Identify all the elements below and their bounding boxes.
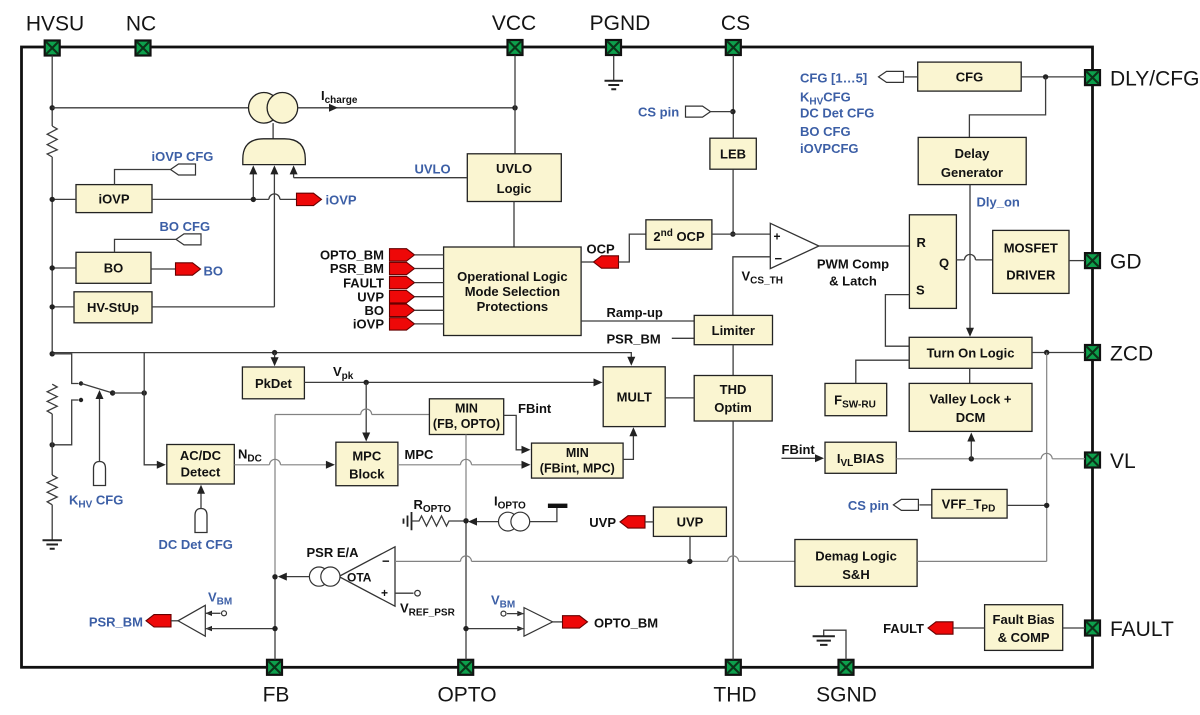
node VCC/Icharge junction <box>512 105 517 110</box>
flag CFG (white, pointing left) <box>879 71 904 82</box>
block IVL BIAS <box>825 442 896 473</box>
block BO <box>76 252 151 283</box>
svg-text:Operational Logic: Operational Logic <box>457 269 568 284</box>
svg-text:−: − <box>382 554 390 569</box>
node CS sense tap <box>730 109 735 114</box>
current source Icharge circle B <box>267 93 298 124</box>
flag BO input (red) <box>390 304 415 316</box>
wire OTA minus input / Demag line (with hops over OPTO and THD risers) <box>395 556 795 562</box>
wire MULT to THD Optim <box>665 397 694 399</box>
wire FAULT flag to block <box>415 282 444 284</box>
block HV-StUp <box>74 292 152 323</box>
pin SGND <box>839 660 854 675</box>
op-amp PWM comparator <box>770 223 819 268</box>
wire current sources to OR dome <box>272 123 274 139</box>
svg-text:PkDet: PkDet <box>255 376 293 391</box>
node iOVP/dome junction <box>251 197 256 202</box>
flag OCP (red) <box>594 256 619 268</box>
wire Ramp-up output to Limiter <box>581 320 694 322</box>
wire BO CFG to BO block <box>115 239 177 252</box>
node OPTO/buffer junction <box>463 626 468 631</box>
svg-text:Q: Q <box>939 256 949 271</box>
wire rail to PkDet <box>274 353 276 360</box>
supply bar IOPTO <box>548 504 568 508</box>
svg-text:S&H: S&H <box>842 567 869 582</box>
wire main rail to MULT top (long horizontal) <box>52 353 631 360</box>
svg-text:CS pin: CS pin <box>638 105 679 120</box>
svg-text:PSR_BM: PSR_BM <box>330 261 384 276</box>
svg-text:& Latch: & Latch <box>829 274 877 289</box>
wire iOVP CFG to iOVP block <box>115 170 171 185</box>
wire MPC to MIN(FBint,MPC) with hop over OPTO riser <box>398 459 524 464</box>
svg-text:VBM: VBM <box>208 590 232 608</box>
node HVSU/Icharge junction <box>50 105 55 110</box>
resistor divider lower <box>47 475 57 505</box>
svg-text:Logic: Logic <box>497 181 532 196</box>
wire Turn On Logic to Valley Lock <box>969 368 971 383</box>
wire buffer to OPTO_BM flag <box>553 621 563 623</box>
resistor ROPTO <box>412 516 467 526</box>
svg-text:iOVP: iOVP <box>353 317 384 332</box>
arrowhead into MULT top <box>627 357 635 366</box>
svg-text:VREF_PSR: VREF_PSR <box>400 601 456 619</box>
svg-text:THD: THD <box>720 382 747 397</box>
wire DC Det CFG arrow to AC/DC Detect <box>200 491 202 509</box>
svg-text:& COMP: & COMP <box>998 630 1050 645</box>
svg-text:VCS_TH: VCS_TH <box>742 269 783 287</box>
block CFG <box>918 62 1022 91</box>
block Limiter <box>694 315 772 344</box>
wire CFG branch to Delay Generator <box>969 77 1045 137</box>
svg-text:HV-StUp: HV-StUp <box>87 300 139 315</box>
svg-text:iOVP CFG: iOVP CFG <box>152 149 214 164</box>
svg-text:Optim: Optim <box>714 400 752 415</box>
node OPTO/ROPTO junction <box>463 518 468 523</box>
svg-text:VL: VL <box>1110 450 1136 473</box>
op-amp OTA (PSR E/A) <box>339 547 395 606</box>
wire THD Optim to THD pin <box>732 421 734 660</box>
flag UVP input (red) <box>390 291 415 303</box>
pin VL <box>1085 453 1100 468</box>
arrowhead PSR buffer top input <box>205 611 212 616</box>
pin OPTO <box>458 660 473 675</box>
block FSW-RU <box>825 383 887 415</box>
wire PSR_BM to Limiter <box>672 337 694 339</box>
block Delay Generator <box>918 137 1026 184</box>
block LEB <box>710 138 756 169</box>
svg-text:PWM Comp: PWM Comp <box>817 257 889 272</box>
svg-text:FAULT: FAULT <box>1110 618 1174 641</box>
wire OTA plus input stub <box>395 592 414 594</box>
arrowhead OPTO buffer bottom input <box>517 626 524 631</box>
terminal VBM (right buffer) <box>501 611 506 616</box>
current source IOPTO circle A <box>499 512 518 531</box>
svg-text:FAULT: FAULT <box>883 621 924 636</box>
svg-text:Valley Lock +: Valley Lock + <box>929 392 1011 407</box>
flag iOVP output (red) <box>297 193 322 205</box>
node HVSU/iOVP <box>50 197 55 202</box>
svg-text:NC: NC <box>126 13 156 36</box>
wire FB riser upper (gray) <box>274 415 276 577</box>
flag BO output (red) <box>176 263 201 275</box>
svg-text:Fault Bias: Fault Bias <box>993 612 1055 627</box>
svg-text:Turn On Logic: Turn On Logic <box>927 346 1015 361</box>
flag PSR_BM input (red) <box>390 262 415 274</box>
svg-text:Ramp-up: Ramp-up <box>607 305 663 320</box>
flag FAULT input (red) <box>390 276 415 288</box>
divider: switch feed B <box>52 400 78 445</box>
wire dome input 2 (from HV-StUp) <box>273 172 275 307</box>
svg-text:CFG [1…5]: CFG [1…5] <box>800 71 867 86</box>
block MIN (FB, OPTO) <box>429 399 503 435</box>
node AC/DC branch <box>142 390 147 395</box>
svg-text:BO CFG: BO CFG <box>160 219 211 234</box>
flag OPTO_BM output (red) <box>563 616 588 628</box>
node FB/PSR buffer junction <box>272 626 277 631</box>
svg-text:R: R <box>917 235 927 250</box>
wire Fault Bias to FAULT pin <box>1063 627 1085 629</box>
wire IOPTO to OPTO node <box>474 521 499 523</box>
wire Vpk down to MPC Block <box>365 382 367 434</box>
svg-text:THD: THD <box>713 684 756 707</box>
wire IOPTO to supply <box>530 508 557 522</box>
svg-text:KHV CFG: KHV CFG <box>69 493 123 511</box>
resistor R-HVSU (startup resistor) <box>47 126 57 157</box>
svg-text:+: + <box>381 586 388 600</box>
svg-text:iOVP: iOVP <box>98 192 129 207</box>
svg-text:FB: FB <box>263 684 290 707</box>
pin HVSU <box>45 41 60 56</box>
svg-text:IOPTO: IOPTO <box>494 494 526 512</box>
current source IOPTO circle B <box>511 512 530 531</box>
wire divider to ground <box>51 505 53 540</box>
svg-text:FBint: FBint <box>782 442 816 457</box>
wire HVSU to BO <box>52 267 76 269</box>
wire 2nd OCP output to comparator <box>712 233 770 235</box>
svg-text:UVP: UVP <box>589 515 616 530</box>
wire CFG output to DLY/CFG pin <box>1021 76 1085 78</box>
arrowhead Vpk into MULT <box>594 378 603 386</box>
svg-text:BO: BO <box>204 264 224 279</box>
svg-text:Dly_on: Dly_on <box>977 195 1020 210</box>
wire NDC to MPC Block with hop over FB riser <box>234 459 328 464</box>
wire FBint into IVL BIAS <box>782 457 817 459</box>
block MULT <box>603 367 665 427</box>
svg-text:Limiter: Limiter <box>712 323 755 338</box>
arrowhead PSR buffer bottom input <box>205 626 212 631</box>
svg-text:SGND: SGND <box>816 684 877 707</box>
svg-text:CS pin: CS pin <box>848 498 889 513</box>
pin CS <box>726 40 741 55</box>
block Demag Logic S&H <box>795 540 917 587</box>
svg-text:LEB: LEB <box>720 147 746 162</box>
svg-text:Protections: Protections <box>477 299 549 314</box>
wire FB to MIN(FB,OPTO) with hop over Vpk branch <box>275 409 429 414</box>
pin FAULT <box>1085 621 1100 636</box>
svg-text:UVP: UVP <box>677 515 704 530</box>
svg-text:Block: Block <box>349 467 385 482</box>
wire dome input 3 (from UVLO) <box>293 172 295 178</box>
wire comparator minus input to Limiter <box>733 257 770 316</box>
resistor divider upper <box>47 384 57 414</box>
pin VCC <box>508 40 523 55</box>
terminal VBM (left buffer) <box>222 611 227 616</box>
triangle buffer OPTO_BM <box>524 608 553 637</box>
wire divider mid segment <box>51 414 53 475</box>
svg-text:HVSU: HVSU <box>26 13 84 36</box>
node HVSU/BO <box>50 265 55 270</box>
wire VL branch up to Valley Lock <box>970 439 972 459</box>
svg-text:iOVPCFG: iOVPCFG <box>800 141 859 156</box>
block PkDet <box>242 367 304 399</box>
svg-text:FBint: FBint <box>518 401 552 416</box>
wire iOVP flag to block <box>415 323 444 325</box>
IC outer boundary <box>22 47 1093 667</box>
node CFG/delay branch <box>1043 74 1048 79</box>
wire S input from Turn On Logic <box>885 295 909 347</box>
arrowhead into AC/DC Detect <box>157 461 166 469</box>
arrowhead OPTO buffer top input <box>517 611 524 616</box>
pin GD <box>1085 253 1100 268</box>
svg-text:BO CFG: BO CFG <box>800 124 851 139</box>
svg-text:iOVP: iOVP <box>326 193 357 208</box>
svg-text:PSR E/A: PSR E/A <box>307 545 360 560</box>
wire MOSFET DRIVER to GD pin <box>1069 260 1085 262</box>
wire OPTO line to buffer input <box>466 628 524 630</box>
pin ZCD <box>1085 345 1100 360</box>
svg-text:AC/DC: AC/DC <box>180 448 222 463</box>
wire UVLO to dome <box>294 177 468 179</box>
wire dome input 1 (from iOVP line) <box>252 172 254 199</box>
node rail/PkDet branch <box>272 350 277 355</box>
OR dome (current source control) <box>243 139 305 165</box>
wire comparator output to RS latch R <box>819 245 910 247</box>
wire branch vertical (rail to AC/DC Detect input) <box>144 353 159 465</box>
svg-text:MIN: MIN <box>566 446 589 460</box>
block 2nd OCP <box>646 220 712 249</box>
svg-text:CFG: CFG <box>956 70 983 85</box>
svg-text:FAULT: FAULT <box>343 275 384 290</box>
svg-text:OPTO_BM: OPTO_BM <box>594 616 658 631</box>
svg-text:Vpk: Vpk <box>333 364 354 382</box>
wire UVLO Logic to Operational Logic <box>513 202 515 248</box>
terminal VREF_PSR <box>415 590 421 596</box>
block UVP <box>653 507 726 536</box>
wire OPTO_BM flag to block <box>415 254 444 256</box>
svg-text:+: + <box>774 230 781 244</box>
wire CS pin flag to VFF_TPD <box>919 504 931 506</box>
pin PGND <box>606 40 621 55</box>
wire IVL BIAS to VL pin with hop over ZCD branch <box>896 453 1085 459</box>
wire CFG flag to CFG block <box>905 76 918 78</box>
switch wiper KHV <box>82 384 113 394</box>
arrowhead OTA output into FB <box>278 573 287 581</box>
wire HV-StUp output to dome <box>152 306 274 308</box>
flag UVP output (red, pointing left) <box>620 516 645 528</box>
flag iOVP input (red) <box>390 318 415 330</box>
wire FBint from MIN(FB,OPTO) to MIN(FBint,MPC) <box>504 415 524 449</box>
svg-text:Icharge: Icharge <box>321 88 358 106</box>
wire FAULT flag to Fault Bias block <box>953 627 985 629</box>
flag iOVP CFG (white) <box>171 164 196 175</box>
wire Limiter to THD Optim <box>732 345 734 376</box>
block Valley Lock + DCM <box>909 383 1032 431</box>
pin THD <box>726 660 741 675</box>
wire UVP block to Demag line <box>689 536 691 561</box>
wire Dly_on to Turn On Logic <box>969 185 971 331</box>
block MPC Block <box>336 442 398 486</box>
wire LEB to PWM junction <box>732 169 734 234</box>
wire wiper to AC/DC branch <box>113 392 145 394</box>
wire CS pin flag to CS line <box>711 111 733 113</box>
ground ROPTO <box>404 512 412 530</box>
wire OPTO riser lower (dark) <box>465 521 467 660</box>
pin DLY/CFG <box>1085 70 1100 85</box>
block MIN (FBint, MPC) <box>532 443 624 478</box>
arrowhead KHV CFG <box>96 390 104 399</box>
arrowhead IOPTO into node <box>468 518 477 526</box>
svg-text:Delay: Delay <box>955 146 990 161</box>
svg-text:PGND: PGND <box>590 12 651 35</box>
arrowhead into PkDet <box>271 357 279 366</box>
wire MIN(FBint,MPC) output to MULT bottom <box>623 434 633 460</box>
block THD Optim <box>694 376 772 422</box>
wire VFF_TPD to ZCD branch <box>1007 504 1047 506</box>
svg-text:BO: BO <box>104 261 124 276</box>
node rail/divider <box>50 351 55 356</box>
node FB/OTA junction <box>272 574 277 579</box>
block AC/DC Detect <box>167 445 235 485</box>
wire HVSU rail upper <box>51 56 53 354</box>
ground SGND <box>824 630 846 660</box>
svg-text:Demag Logic: Demag Logic <box>815 549 897 564</box>
arrowhead DC Det CFG <box>197 485 205 494</box>
switch contact lower <box>79 398 83 402</box>
arrowhead Icharge <box>329 104 338 112</box>
triangle buffer PSR_BM (pointing left) <box>178 605 205 636</box>
svg-text:VCC: VCC <box>492 12 536 35</box>
svg-text:MOSFET: MOSFET <box>1004 241 1058 256</box>
svg-text:PSR_BM: PSR_BM <box>607 332 661 347</box>
ground divider <box>43 540 62 549</box>
arrowhead into MPC Block top <box>362 433 370 442</box>
svg-text:GD: GD <box>1110 251 1142 274</box>
wire UVP flag to UVP block <box>645 521 653 523</box>
svg-text:NDC: NDC <box>238 447 262 465</box>
wire Demag to ZCD branch <box>917 560 1047 562</box>
wire Vpk to MULT <box>304 381 595 383</box>
block UVLO Logic <box>467 154 561 202</box>
flag OPTO_BM input (red) <box>390 249 415 261</box>
pin FB <box>267 660 282 675</box>
arrowhead FBint into MIN(FBint,MPC) <box>522 446 531 454</box>
arrowhead dome input 3 <box>290 165 298 174</box>
block Turn On Logic <box>909 337 1032 368</box>
svg-text:VBM: VBM <box>491 593 515 611</box>
node VFF/ZCD branch junction <box>1044 503 1049 508</box>
svg-text:CS: CS <box>721 12 750 35</box>
wire VCC to UVLO Logic <box>514 56 516 154</box>
divider: switch feed A <box>52 354 78 384</box>
wire HVSU to iOVP <box>52 198 76 200</box>
wire FSW-RU to Turn On Logic <box>856 360 909 383</box>
wire Icharge right segment to VCC rail <box>298 107 515 109</box>
flag DC Det CFG (white bullet) <box>195 509 207 533</box>
arrowhead into Valley Lock bottom <box>967 433 975 442</box>
flag KHV CFG (white bullet) <box>94 462 106 486</box>
current source Icharge circle A <box>248 93 279 124</box>
arrowhead dome input 2 <box>270 165 278 174</box>
svg-text:−: − <box>775 251 783 266</box>
arrowhead Dly_on <box>966 328 974 337</box>
wire VBM terminal to buffer <box>507 613 524 615</box>
svg-text:OTA: OTA <box>347 571 372 585</box>
block MOSFET DRIVER <box>993 230 1069 293</box>
arrowhead NDC into MPC Block <box>326 461 335 469</box>
wire OCP to 2nd OCP block <box>619 234 646 262</box>
svg-text:MPC: MPC <box>352 449 382 464</box>
svg-text:ROPTO: ROPTO <box>414 497 452 515</box>
wire Turn On Logic to ZCD pin <box>1032 352 1085 354</box>
wire iOVP output with hop over HV-StUp line <box>152 194 297 199</box>
current mirror OTA circle B <box>321 567 340 586</box>
wire Icharge left segment <box>52 107 248 109</box>
node 2nd OCP / LEB / comparator junction <box>730 231 735 236</box>
node Vpk branch <box>364 380 369 385</box>
wire KHV CFG arrow to wiper <box>99 396 101 462</box>
svg-text:OPTO: OPTO <box>437 684 496 707</box>
svg-text:S: S <box>916 283 925 298</box>
wire PSR_BM flag to block <box>415 268 444 270</box>
svg-text:Generator: Generator <box>941 165 1003 180</box>
flag BO CFG (white) <box>176 234 201 245</box>
node wiper output <box>110 390 115 395</box>
svg-text:DRIVER: DRIVER <box>1006 268 1056 283</box>
wire FB line to PSR buffer input <box>205 628 275 630</box>
node UVP/Demag junction <box>687 559 692 564</box>
svg-text:Detect: Detect <box>181 465 221 480</box>
svg-text:(FBint, MPC): (FBint, MPC) <box>540 462 615 476</box>
flag CS pin (white) <box>686 106 711 117</box>
wire OCP output <box>581 261 593 263</box>
arrowhead MPC into MIN(FBint,MPC) <box>522 461 531 469</box>
wire CS pin down to LEB <box>732 56 734 139</box>
svg-text:Mode Selection: Mode Selection <box>465 284 560 299</box>
current mirror OTA circle A <box>309 567 328 586</box>
svg-text:MULT: MULT <box>617 390 652 405</box>
wire BO flag to block <box>415 309 444 311</box>
wire Q output to MOSFET DRIVER with hop over Dly_on <box>956 254 992 259</box>
node HVSU/HV-StUp <box>50 304 55 309</box>
pin NC <box>136 41 151 56</box>
svg-text:DC Det CFG: DC Det CFG <box>800 106 874 121</box>
wire OTA mirror to FB riser <box>284 576 310 578</box>
ground PGND <box>613 56 615 81</box>
svg-text:MPC: MPC <box>405 447 435 462</box>
block iOVP <box>76 185 152 213</box>
wire PSR_BM flag to buffer apex <box>171 620 178 622</box>
wire FB riser lower (dark) <box>274 577 276 660</box>
arrowhead FBint into IVL BIAS <box>815 454 824 462</box>
node VL/Valley branch <box>969 456 974 461</box>
switch contact upper <box>79 381 83 385</box>
wire VBM terminal to PSR buffer <box>205 612 220 614</box>
flag PSR_BM output (red, pointing left) <box>146 615 171 627</box>
wire BO output <box>151 268 176 270</box>
svg-text:OCP: OCP <box>587 242 616 257</box>
flag CS pin lower (white, pointing left) <box>893 499 918 510</box>
svg-text:MIN: MIN <box>455 402 478 416</box>
